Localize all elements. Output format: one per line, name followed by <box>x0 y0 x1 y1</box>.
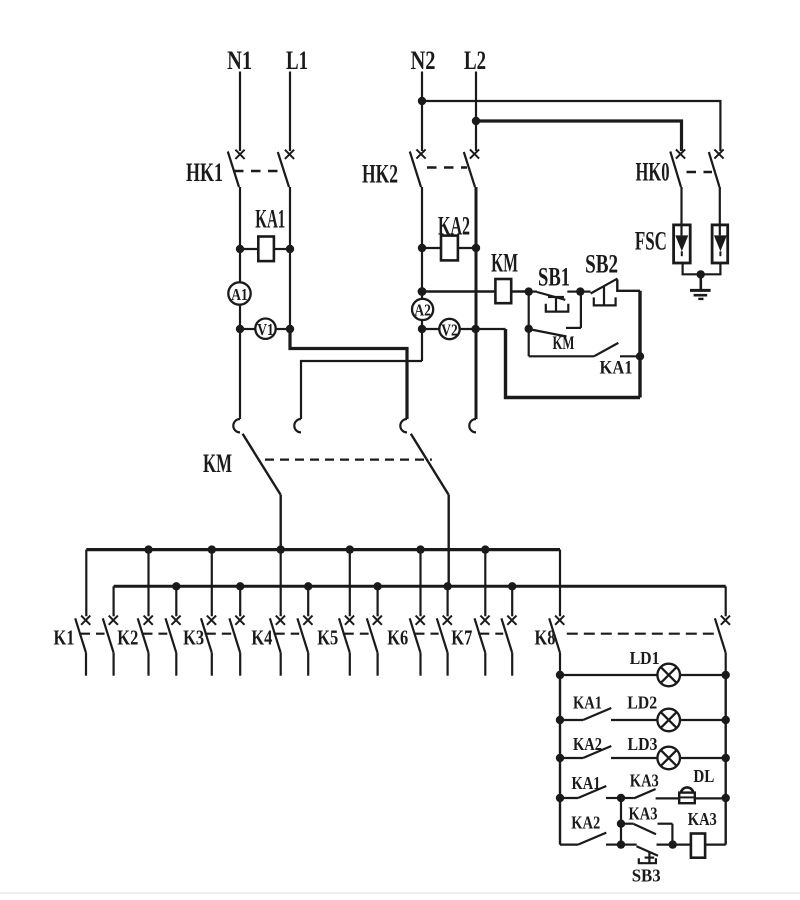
switch K3 pole L <box>201 616 216 676</box>
junction KA1 left <box>236 245 244 253</box>
junction V2 left <box>418 325 426 333</box>
junction row5 right <box>669 840 677 848</box>
knife switch HK0 <box>670 149 723 187</box>
bus 2 <box>114 585 726 588</box>
pushbutton SB2 (NO) <box>580 279 640 306</box>
contactor KM linkage <box>265 459 432 461</box>
switch K6 pole L <box>410 616 425 676</box>
junction KA2 right <box>472 244 480 252</box>
contact KA1 (NO) <box>529 343 640 356</box>
junction row2 left <box>556 716 564 724</box>
contactor KM pole 2 terminal <box>294 419 301 432</box>
svg-text:HK2: HK2 <box>362 160 398 189</box>
svg-text:KA2: KA2 <box>438 212 470 241</box>
wire bus2 feed x308 <box>307 586 309 616</box>
wire row1 lead <box>560 674 657 676</box>
contact KA1 row2 (NO) <box>560 708 657 720</box>
junction bus1 x148 <box>144 545 152 553</box>
wire FSC join <box>683 263 721 274</box>
switch K2 pole R <box>166 616 181 676</box>
wire bus2 to K1 right <box>112 586 114 616</box>
ground <box>690 274 711 299</box>
svg-text:KA2: KA2 <box>573 734 602 754</box>
bell DL <box>679 787 695 803</box>
svg-text:KA1: KA1 <box>255 205 285 234</box>
scan artifact line <box>0 892 800 894</box>
junction row5 mid <box>617 840 625 848</box>
knife switch HK1 <box>228 150 294 187</box>
junction bus2 x308 <box>304 582 312 590</box>
junction row1 left <box>556 671 564 679</box>
switch K4 pole R <box>297 616 312 676</box>
svg-text:KA3: KA3 <box>688 809 717 829</box>
svg-text:LD2: LD2 <box>627 692 657 712</box>
svg-text:K8: K8 <box>535 626 556 650</box>
wire control right rail <box>638 291 641 398</box>
wire bus1 feed x485 <box>484 550 486 617</box>
relay coil KA2 <box>422 236 476 261</box>
junction bus1 x211 <box>208 545 216 553</box>
svg-text:V1: V1 <box>257 320 274 339</box>
junction row1 right <box>722 671 730 679</box>
wire row4 to row5 <box>620 798 622 845</box>
switch K2 pole L <box>138 616 153 676</box>
contactor KM pole 4 terminal <box>469 419 476 432</box>
svg-text:N2: N2 <box>411 46 436 75</box>
contactor KM pole 1 terminal <box>233 419 240 432</box>
junction KM aux left <box>525 325 533 333</box>
svg-text:FSC: FSC <box>635 227 667 256</box>
switch K4 pole L <box>270 616 285 676</box>
svg-text:V2: V2 <box>441 320 458 339</box>
switch K2 linkage <box>142 633 168 635</box>
wire bus2 feed x176 <box>175 586 177 616</box>
wire N2 below A2 <box>421 320 423 361</box>
junction ground node <box>697 270 705 278</box>
svg-text:K6: K6 <box>387 626 408 650</box>
junction V2 on L2 <box>471 325 479 333</box>
contactor coil KM <box>495 279 511 303</box>
relay coil KA1 <box>240 237 290 262</box>
switch K6 pole R <box>437 616 452 676</box>
svg-text:HK0: HK0 <box>636 158 670 187</box>
pushbutton SB3 (NC) <box>621 845 673 864</box>
wire KM coil lead <box>422 290 495 292</box>
wire row4 lead b <box>695 797 726 799</box>
wire N1 drop <box>239 72 241 152</box>
wire N2 to HK0 right pole <box>422 101 720 151</box>
svg-text:KA1: KA1 <box>600 358 633 379</box>
junction branch left <box>617 820 625 828</box>
junction KM coil branch <box>418 287 427 296</box>
wire row2 lead b <box>680 719 726 721</box>
wire KM coil to SB1 <box>511 290 529 292</box>
junction row2 right <box>722 716 730 724</box>
wire control return path <box>506 329 641 398</box>
svg-text:K2: K2 <box>117 626 138 650</box>
wire row1 lead b <box>680 674 726 676</box>
svg-text:KA3: KA3 <box>630 771 659 791</box>
switch K5 pole R <box>367 616 382 676</box>
junction bus1 x485 <box>481 545 489 553</box>
svg-text:SB2: SB2 <box>585 250 618 279</box>
junction node B <box>576 287 584 295</box>
svg-text:DL: DL <box>693 766 714 786</box>
svg-text:A1: A1 <box>231 285 248 304</box>
pushbutton SB1 (NC) <box>529 292 581 312</box>
junction V1 left <box>236 325 244 333</box>
wire N2 drop <box>421 72 423 152</box>
lamp LD1 <box>657 664 680 687</box>
wire bus2 feed x512 <box>511 586 513 616</box>
wire lamp panel left rail <box>559 675 561 845</box>
svg-text:HK1: HK1 <box>186 158 223 187</box>
svg-text:LD3: LD3 <box>628 734 658 754</box>
contact KM aux (NO) <box>531 292 581 337</box>
arrester FSC left <box>674 225 691 263</box>
wire bus2 to K8 right <box>725 586 727 616</box>
contact KA3 bypass (NO) <box>621 824 672 845</box>
wire lamp panel right rail <box>725 675 727 845</box>
svg-text:K1: K1 <box>54 626 75 650</box>
svg-text:K3: K3 <box>183 626 204 650</box>
svg-text:KA2: KA2 <box>571 813 600 833</box>
wire bus1 feed x349 <box>349 550 351 617</box>
svg-text:KA1: KA1 <box>572 773 601 793</box>
wire N2 crossover to KM pole 2 <box>301 361 422 419</box>
wire L2 below HK2 <box>475 187 478 419</box>
switch K3 linkage <box>205 633 231 635</box>
junction V1 right <box>286 325 294 333</box>
svg-text:SB1: SB1 <box>538 263 570 292</box>
wire L2 drop <box>475 72 477 152</box>
switch K3 pole R <box>229 616 244 676</box>
voltmeter V1 <box>240 319 290 340</box>
junction bus2 x447 <box>443 582 451 590</box>
switch K1 pole L <box>75 616 90 676</box>
wire bus2 feed x377 <box>377 586 379 616</box>
junction bus1 x349 <box>346 545 354 553</box>
wire HK0 right to FSC <box>719 187 721 235</box>
junction bus2 x512 <box>508 582 516 590</box>
wire L2 to HK0 left pole <box>476 121 682 151</box>
svg-text:KM: KM <box>203 449 232 478</box>
lamp LD2 <box>657 709 680 732</box>
wire L1 below HK1 <box>289 187 291 329</box>
switch K5 linkage <box>343 633 369 635</box>
relay coil KA3 <box>691 834 705 858</box>
junction node A <box>525 287 533 295</box>
voltmeter V2 <box>422 319 476 340</box>
wire HK0 left to FSC <box>680 187 682 235</box>
svg-text:N1: N1 <box>227 46 252 75</box>
wire row3 lead b <box>680 757 726 759</box>
junction row4 mid <box>617 794 625 802</box>
junction bus1 x420 <box>416 545 424 553</box>
junction bus2 x240 <box>236 582 244 590</box>
wire bus2 feed x447 <box>447 586 449 616</box>
switch K1 linkage <box>79 633 105 635</box>
wire V2 to control rail <box>476 328 506 330</box>
junction bus2 x377 <box>373 582 381 590</box>
switch K7 linkage <box>478 633 503 635</box>
contactor KM pole 3 blade <box>411 434 449 495</box>
ammeter A1 <box>228 282 250 304</box>
switch K8 pole R <box>715 616 730 676</box>
junction row4 right <box>722 794 730 802</box>
svg-text:K5: K5 <box>317 626 338 650</box>
wire N2 below HK2 <box>421 187 423 298</box>
bus 1 <box>86 548 560 551</box>
svg-text:K4: K4 <box>251 626 272 650</box>
contact KA2 row3 (NO) <box>560 746 657 758</box>
wire KA3 coil to rail <box>705 843 726 845</box>
wire N1 below A1 <box>239 305 241 419</box>
svg-text:KA3: KA3 <box>629 803 658 823</box>
ammeter A2 <box>412 299 433 320</box>
switch K1 pole R <box>103 616 118 676</box>
lamp LD3 <box>657 747 680 770</box>
wire KM pole 1 to bus 1 <box>280 495 282 550</box>
contact KA2 row5 (NO) <box>560 833 621 845</box>
junction on N2 <box>418 97 426 105</box>
svg-text:L2: L2 <box>464 46 486 75</box>
wire bus1 feed x280 <box>280 550 282 617</box>
wire L1 drop <box>289 72 291 152</box>
wire N1 below HK1 <box>239 187 241 283</box>
switch K7 pole R <box>501 616 516 676</box>
wire bus1 feed x211 <box>211 550 213 617</box>
wire bus1 feed x148 <box>147 550 149 617</box>
junction KA2 left <box>418 244 426 252</box>
junction row3 right <box>722 754 730 762</box>
switch K4 linkage <box>274 633 300 635</box>
wire bus1 to K8 left <box>559 550 561 617</box>
switch K8 linkage <box>567 633 717 635</box>
knife switch HK2 <box>410 149 479 187</box>
junction on L2 <box>472 117 480 125</box>
svg-text:KM: KM <box>553 333 575 354</box>
wire self-hold drop <box>528 292 530 357</box>
wire bus1 to K1 left <box>85 550 87 617</box>
svg-text:KM: KM <box>491 249 518 278</box>
svg-text:SB3: SB3 <box>632 866 661 886</box>
svg-text:K7: K7 <box>451 626 472 650</box>
contact KA1 row4 (NO) <box>560 786 621 798</box>
junction row4 left <box>556 794 564 802</box>
switch K8 pole L <box>549 616 564 676</box>
wire KM pole 3 to bus 2 <box>448 495 450 586</box>
contact KA3 row4 (NO) <box>621 789 679 798</box>
svg-text:KA1: KA1 <box>573 693 602 713</box>
wire L1 crossover to KM pole 3 <box>290 329 407 419</box>
wire bus2 feed x240 <box>239 586 241 616</box>
junction bus1 x280 <box>277 545 285 553</box>
svg-text:LD1: LD1 <box>630 648 660 668</box>
switch K7 pole L <box>475 616 490 676</box>
junction KA1 right <box>286 245 294 253</box>
contactor KM pole 3 terminal <box>400 419 407 432</box>
wire bus1 feed x420 <box>419 550 421 617</box>
svg-text:A2: A2 <box>414 301 431 320</box>
junction KA1 contact right <box>636 352 644 360</box>
junction bus2 x176 <box>172 582 180 590</box>
wire to KA3 coil <box>673 843 691 845</box>
switch K6 linkage <box>414 633 439 635</box>
arrester FSC right <box>712 225 728 263</box>
switch K5 pole L <box>339 616 354 676</box>
svg-text:L1: L1 <box>286 46 308 75</box>
contactor KM pole 1 blade <box>243 434 281 495</box>
junction row3 left <box>556 754 564 762</box>
